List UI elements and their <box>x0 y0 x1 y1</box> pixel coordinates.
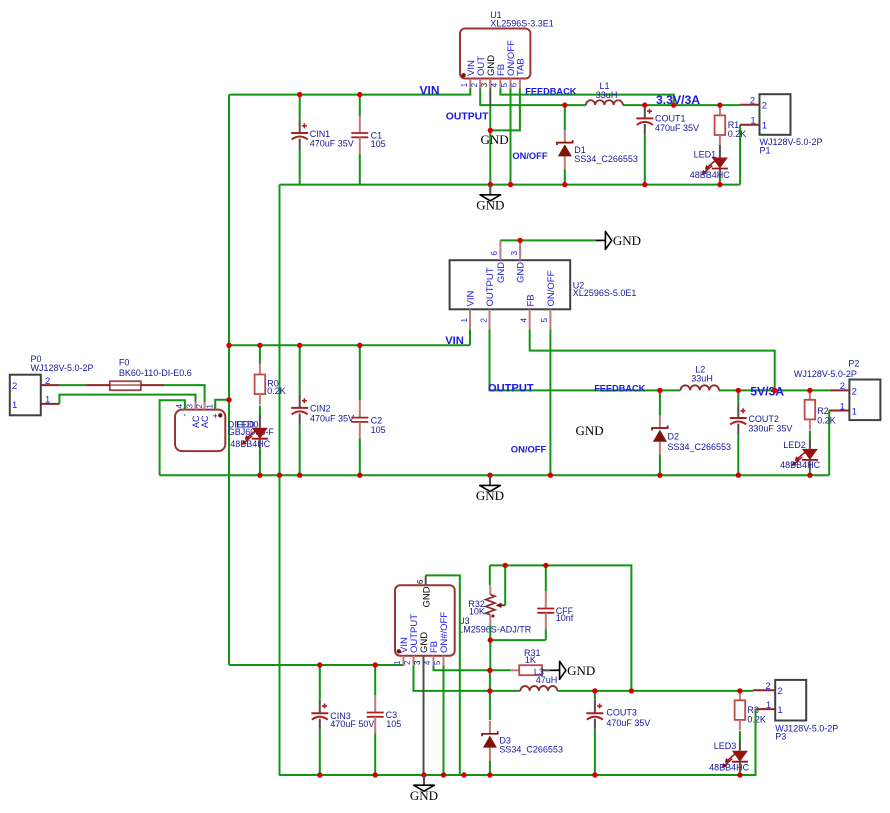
inductor L2 <box>681 385 720 390</box>
P0 pin 1 stub <box>40 403 59 405</box>
wire U3 pin 4 FB <box>434 666 490 671</box>
svg-text:1: 1 <box>840 401 845 412</box>
wire 3.3V output node from L1 to P1 pin 2 <box>623 104 740 106</box>
ground flag R31 <box>550 669 560 671</box>
P2 pin 2 stub <box>830 389 849 391</box>
wire P3 pin 1 to ground rail <box>740 709 756 775</box>
svg-text:GND: GND <box>476 488 504 503</box>
svg-text:470uF 35V: 470uF 35V <box>606 718 650 728</box>
connector P2 WJ128V-5.0-2P <box>849 380 880 421</box>
wire U2 GND pins to GND flag <box>500 239 596 241</box>
svg-text:COUT1: COUT1 <box>655 114 686 124</box>
bridge pin 1 stub <box>214 402 216 410</box>
wire U1 pin 3 GND down to ground rail <box>489 79 491 109</box>
junction <box>317 662 322 667</box>
capacitor CIN3 polarized <box>319 700 321 714</box>
U2 pin 2 stub <box>489 309 491 329</box>
svg-text:GND: GND <box>481 132 509 147</box>
svg-text:P3: P3 <box>775 731 786 741</box>
fuse F0 body <box>110 381 141 390</box>
junction <box>671 102 676 107</box>
svg-text:R2: R2 <box>817 406 829 416</box>
junction <box>737 772 742 777</box>
svg-text:ON/OFF: ON/OFF <box>512 151 547 161</box>
junction <box>226 343 231 348</box>
U1 pin 4 stub <box>499 79 501 89</box>
wire U2 pin 1 to VIN rail <box>469 330 471 346</box>
inductor L1 <box>586 100 623 105</box>
capacitor C1 ceramic <box>359 116 361 134</box>
svg-text:OUTPUT: OUTPUT <box>446 111 489 122</box>
resistor R0 <box>259 364 261 375</box>
svg-text:ON#/OFF: ON#/OFF <box>439 612 450 653</box>
svg-text:4: 4 <box>490 82 499 87</box>
capacitor COUT2 polarized <box>737 405 739 419</box>
U1 pin 1 stub <box>469 79 471 89</box>
wire U3 pin 5 ON to rail <box>443 666 445 776</box>
svg-text:48BB4HC: 48BB4HC <box>780 460 821 470</box>
wire switch node through D3 junction continues <box>489 670 491 720</box>
U2 pin 5 stub <box>549 309 551 329</box>
svg-text:2: 2 <box>852 386 857 397</box>
wire bottom ground rail <box>279 774 740 776</box>
svg-text:470uF 35V: 470uF 35V <box>655 123 699 133</box>
bridge pin 3 stub <box>195 402 197 410</box>
svg-text:SS34_C266553: SS34_C266553 <box>668 442 732 452</box>
svg-text:2: 2 <box>750 96 755 107</box>
capacitor C3 ceramic <box>374 695 376 713</box>
svg-text:47uH: 47uH <box>536 675 558 685</box>
wire R32 wiper up <box>504 565 506 605</box>
svg-text:1: 1 <box>750 115 755 126</box>
junction <box>807 388 812 393</box>
svg-text:0.2K: 0.2K <box>267 386 286 396</box>
junction <box>297 92 302 97</box>
svg-text:6: 6 <box>490 251 499 256</box>
junction <box>257 473 262 478</box>
junction <box>629 688 634 693</box>
junction <box>488 182 493 187</box>
bridge pin 1 marker dot <box>218 413 222 417</box>
U3 pin 2 stub <box>413 656 415 666</box>
svg-text:SS34_C266553: SS34_C266553 <box>499 744 563 754</box>
op-amp U3 regulator LM2596S-ADJ/TR body <box>395 585 455 655</box>
connector P3 WJ128V-5.0-2P <box>775 680 806 721</box>
bridge pin 2 stub <box>204 402 206 410</box>
P0 pin 2 stub <box>40 384 59 386</box>
junction <box>642 102 647 107</box>
svg-text:5V/3A: 5V/3A <box>750 384 784 398</box>
svg-text:2: 2 <box>777 686 782 697</box>
ground symbol bottom <box>423 775 425 785</box>
U2 pin 4 stub <box>529 309 531 329</box>
U3 pin 3 stub <box>423 656 425 666</box>
svg-text:BK60-110-DI-E0.6: BK60-110-DI-E0.6 <box>119 368 192 378</box>
svg-text:1: 1 <box>460 83 469 87</box>
wire LED0 to ground rail <box>259 449 261 475</box>
svg-text:1: 1 <box>12 400 17 411</box>
svg-text:-: - <box>180 414 190 417</box>
wire U1 pin 2 OUT to inductor L1 <box>480 89 586 106</box>
resistor R1 <box>719 104 721 115</box>
junction <box>657 473 662 478</box>
junction <box>592 688 597 693</box>
svg-text:1: 1 <box>852 406 857 417</box>
svg-text:CIN2: CIN2 <box>310 403 331 413</box>
svg-text:FEEDBACK: FEEDBACK <box>594 383 645 393</box>
ground symbol middle <box>489 475 491 485</box>
svg-text:2: 2 <box>195 404 204 409</box>
resistor R2 <box>809 389 811 400</box>
svg-text:2: 2 <box>840 381 845 392</box>
junction <box>487 473 492 478</box>
junction <box>592 772 597 777</box>
svg-text:WJ128V-5.0-2P: WJ128V-5.0-2P <box>794 369 857 379</box>
svg-text:VIN: VIN <box>466 291 477 307</box>
U1 pin 1 marker dot <box>461 73 465 77</box>
junction <box>736 473 741 478</box>
junction <box>226 397 231 402</box>
capacitor COUT3 polarized <box>594 700 596 714</box>
connector P0 WJ128V-5.0-2P <box>10 375 41 416</box>
P1 pin 1 stub <box>740 124 759 126</box>
junction <box>317 772 322 777</box>
wire FB node to R31 <box>490 669 511 671</box>
U2 pin 1 stub <box>469 309 471 329</box>
U3 pin 1 marker dot <box>397 649 401 653</box>
svg-text:6: 6 <box>416 580 425 584</box>
capacitor CFF ceramic <box>545 591 547 609</box>
LED LED0 <box>259 415 261 428</box>
wire middle ground rail <box>160 474 830 476</box>
U2 pin 3 stub top <box>519 240 521 260</box>
svg-text:470uF 35V: 470uF 35V <box>310 413 354 423</box>
wire U2 pin 5 ON/OFF to ground rail <box>549 330 551 476</box>
U1 pin 6 stub <box>519 79 521 89</box>
wire output node to P3 pin 2 <box>557 690 753 692</box>
wire U3 pin 2 OUTPUT switch node <box>414 666 521 691</box>
junction <box>297 343 302 348</box>
svg-text:COUT2: COUT2 <box>748 414 779 424</box>
junction <box>717 102 722 107</box>
op-amp U2 regulator XL2596S-5.0E1 body <box>450 260 571 309</box>
svg-text:GND: GND <box>421 586 432 607</box>
wire input rail to U3 pin 1 <box>229 656 404 665</box>
svg-text:105: 105 <box>371 425 386 435</box>
capacitor CIN1 polarized <box>299 120 301 134</box>
svg-text:33uH: 33uH <box>596 90 618 100</box>
wire U1 pin 6 TAB to GND node <box>491 89 520 131</box>
svg-text:5: 5 <box>433 660 442 665</box>
wire R32 bottom to CFF bottom <box>490 639 546 641</box>
wire left ground vertical to lower sections <box>279 185 281 775</box>
svg-text:10nf: 10nf <box>556 613 574 623</box>
P2 pin 1 stub <box>829 410 849 412</box>
svg-text:GND: GND <box>476 198 504 213</box>
wire R32/CFF top rail <box>490 565 632 691</box>
svg-text:OUTPUT: OUTPUT <box>485 267 496 306</box>
svg-text:330uF 35V: 330uF 35V <box>748 424 792 434</box>
U3 pin 1 stub <box>403 656 405 666</box>
wire U2 pin 4 FB to output <box>530 330 775 391</box>
ground symbol top <box>489 185 491 195</box>
P3 pin 1 stub <box>756 708 776 710</box>
junction <box>642 182 647 187</box>
junction <box>487 688 492 693</box>
wire fuse to bridge pin 2 <box>164 385 205 402</box>
svg-text:48BB4HC: 48BB4HC <box>690 170 731 180</box>
wire U3 pin 3 GND to rail <box>423 666 425 776</box>
U3 pin 5 stub <box>443 656 445 666</box>
junction U2 gnd <box>517 238 522 243</box>
diode D3 schottky <box>489 721 491 734</box>
wire bridge pin 1 to input rail <box>215 400 229 410</box>
ground flag U2 top <box>596 239 606 241</box>
svg-text:4: 4 <box>175 404 184 409</box>
wire FEEDBACK net from U1 pin 4 to output node <box>500 89 673 105</box>
U1 pin 2 stub <box>479 79 481 89</box>
svg-text:GND: GND <box>496 262 507 283</box>
svg-text:COUT3: COUT3 <box>606 708 637 718</box>
svg-text:10K: 10K <box>469 607 485 617</box>
junction <box>421 772 426 777</box>
LED LED3 <box>739 738 741 751</box>
svg-text:XL2596S-3.3E1: XL2596S-3.3E1 <box>490 18 554 28</box>
junction <box>562 182 567 187</box>
junction <box>737 688 742 693</box>
junction <box>657 388 662 393</box>
svg-text:0.2K: 0.2K <box>747 714 766 724</box>
svg-text:C2: C2 <box>371 416 383 426</box>
inductor L3 <box>520 686 557 691</box>
svg-text:0.2K: 0.2K <box>728 129 747 139</box>
junction <box>357 92 362 97</box>
svg-text:33uH: 33uH <box>691 374 713 384</box>
wire P0 pin 1 to bridge pin 3 <box>59 395 195 404</box>
svg-text:1: 1 <box>205 404 214 409</box>
U1 pin 5 stub <box>510 79 512 89</box>
wire VIN net from input rail to U1 pin 1 <box>229 89 470 95</box>
wire U2 pin 2 OUTPUT down <box>490 330 681 391</box>
resistor R3 <box>739 689 741 700</box>
svg-text:2: 2 <box>762 101 767 112</box>
svg-text:105: 105 <box>386 719 401 729</box>
junction <box>548 473 553 478</box>
wire input vertical rail from VIN down to U3 section <box>228 95 230 665</box>
svg-text:1: 1 <box>45 395 50 406</box>
svg-text:3: 3 <box>480 83 489 87</box>
svg-text:470uF 35V: 470uF 35V <box>310 138 354 148</box>
U2 pin 6 stub top <box>499 240 501 260</box>
capacitor CIN2 polarized <box>299 394 301 408</box>
svg-text:2: 2 <box>470 83 479 87</box>
svg-text:4: 4 <box>520 318 529 323</box>
U3 pin 4 stub <box>433 656 435 666</box>
junction <box>488 128 493 133</box>
junction <box>487 668 492 673</box>
bridge rectifier DIED0 GBJ6005-F body <box>175 410 225 452</box>
svg-text:48BB4HC: 48BB4HC <box>709 763 750 773</box>
svg-text:2: 2 <box>12 381 17 392</box>
wire U1 pin 5 ON/OFF down to ground rail <box>510 89 512 185</box>
svg-text:D2: D2 <box>668 432 680 442</box>
wire P0 pin 2 to fuse F0 <box>59 384 85 386</box>
wire R0 chain top <box>259 345 261 363</box>
svg-text:VIN: VIN <box>420 84 440 98</box>
svg-text:0.2K: 0.2K <box>817 416 836 426</box>
svg-text:6: 6 <box>510 83 519 87</box>
svg-text:FEEDBACK: FEEDBACK <box>525 87 576 97</box>
svg-text:48BB4HC: 48BB4HC <box>230 439 271 449</box>
junction <box>373 772 378 777</box>
junction <box>257 343 262 348</box>
svg-text:TAB: TAB <box>516 58 527 76</box>
junction <box>487 772 492 777</box>
junction <box>503 563 508 568</box>
wire D3 to ground rail <box>489 761 491 775</box>
svg-text:3: 3 <box>510 251 519 256</box>
U1 pin 3 stub <box>489 79 491 89</box>
svg-text:GND: GND <box>410 788 438 803</box>
P1 pin 2 stub <box>740 104 759 106</box>
wire middle VIN rail <box>229 344 470 346</box>
svg-text:470uF 50V: 470uF 50V <box>330 719 374 729</box>
svg-text:1: 1 <box>777 705 782 716</box>
wire P2 pin 1 to ground rail <box>828 411 830 476</box>
wire top ground rail <box>280 184 741 186</box>
svg-text:3.3V/3A: 3.3V/3A <box>656 93 700 107</box>
svg-text:5: 5 <box>540 318 549 323</box>
capacitor C2 ceramic <box>359 400 361 418</box>
svg-text:1: 1 <box>762 121 767 132</box>
wire R0 to LED0 <box>259 406 261 418</box>
junction <box>461 772 466 777</box>
svg-text:FB: FB <box>525 294 536 306</box>
junction <box>543 563 548 568</box>
svg-text:LED2: LED2 <box>783 440 806 450</box>
svg-text:GND: GND <box>576 423 604 438</box>
svg-text:AC: AC <box>200 415 210 428</box>
junction <box>373 662 378 667</box>
svg-text:1: 1 <box>766 700 771 711</box>
wire R32 bottom node <box>489 626 491 671</box>
junction <box>736 388 741 393</box>
svg-text:P2: P2 <box>848 359 859 369</box>
svg-text:GND: GND <box>516 262 527 283</box>
diode D1 schottky <box>564 130 566 143</box>
LED LED1 <box>719 145 721 158</box>
svg-text:2: 2 <box>45 376 50 387</box>
svg-text:LED1: LED1 <box>694 149 717 159</box>
potentiometer R32 10K <box>489 585 491 594</box>
connector P1 WJ128V-5.0-2P <box>760 94 791 135</box>
junction <box>772 388 777 393</box>
svg-text:4: 4 <box>423 660 432 665</box>
junction <box>441 772 446 777</box>
junction <box>807 473 812 478</box>
op-amp U1 regulator XL2596S-3.3E1 body <box>460 29 530 79</box>
svg-text:LM2596S-ADJ/TR: LM2596S-ADJ/TR <box>458 624 532 634</box>
wire U3 pin 6 GND to ground rail <box>426 575 460 775</box>
junction <box>297 473 302 478</box>
wire R32 top <box>489 565 491 585</box>
svg-text:F0: F0 <box>119 358 130 368</box>
U3 pin 6 stub top <box>425 575 427 585</box>
svg-text:ON/OFF: ON/OFF <box>546 270 557 306</box>
svg-text:105: 105 <box>371 139 386 149</box>
svg-text:3: 3 <box>413 661 422 665</box>
junction <box>357 343 362 348</box>
svg-text:1: 1 <box>393 661 402 665</box>
svg-text:2: 2 <box>479 318 488 323</box>
svg-text:2: 2 <box>765 681 770 692</box>
svg-text:2: 2 <box>403 661 412 665</box>
svg-text:WJ128V-5.0-2P: WJ128V-5.0-2P <box>31 363 94 373</box>
svg-text:3: 3 <box>186 404 195 409</box>
svg-text:GND: GND <box>567 663 595 678</box>
svg-text:SS34_C266553: SS34_C266553 <box>574 154 638 164</box>
svg-text:LED3: LED3 <box>714 741 737 751</box>
svg-text:GND: GND <box>613 233 641 248</box>
junction <box>508 182 513 187</box>
wire P1 pin 1 to ground rail <box>739 125 741 185</box>
junction <box>488 637 493 642</box>
svg-text:P1: P1 <box>760 145 771 155</box>
junction <box>357 473 362 478</box>
P3 pin 2 stub <box>753 689 775 691</box>
junction <box>562 102 567 107</box>
svg-text:1K: 1K <box>525 655 536 665</box>
junction <box>277 473 282 478</box>
svg-text:ON/OFF: ON/OFF <box>511 443 547 454</box>
svg-text:1: 1 <box>460 318 469 323</box>
resistor R31 horizontal <box>511 669 520 671</box>
capacitor COUT1 polarized <box>644 105 646 119</box>
bridge pin 4 stub <box>184 402 186 410</box>
LED LED2 <box>809 436 811 449</box>
svg-text:5: 5 <box>500 82 509 87</box>
svg-text:VIN: VIN <box>445 335 464 347</box>
junction <box>717 182 722 187</box>
wire 5V output node to P2 pin 2 <box>719 389 830 391</box>
svg-text:XL2596S-5.0E1: XL2596S-5.0E1 <box>573 288 637 298</box>
svg-text:OUTPUT: OUTPUT <box>488 382 534 394</box>
wire bridge pin 4 to ground rail <box>160 400 185 475</box>
diode D2 schottky <box>659 415 661 428</box>
